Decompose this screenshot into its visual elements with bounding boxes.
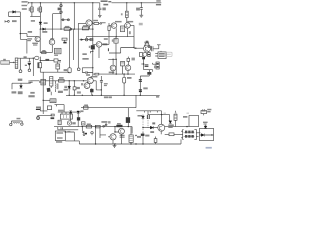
node dot [186, 126, 187, 127]
node dots rail right [126, 2, 142, 3]
node dot x92.8 y51.3 [92, 51, 93, 52]
resistor R17 [42, 52, 46, 54]
wire x33.3 vertical [32, 58, 34, 76]
node dots on rail [31, 2, 93, 3]
wire Q7 emitter [98, 47, 100, 58]
label C1 [102, 8, 105, 11]
cap C3b tee [157, 45, 161, 49]
terminal circle [19, 70, 22, 73]
component C18 [175, 111, 177, 114]
diode D4 [20, 83, 22, 85]
ground [139, 15, 143, 17]
label [154, 66, 156, 69]
wire Q1 base [78, 22, 86, 24]
label VR1 [54, 55, 58, 56]
label C2 [136, 8, 140, 11]
wire Q2 base [109, 25, 111, 27]
label Q10 [81, 83, 83, 85]
wire coil top [18, 58, 21, 69]
input terminal [5, 20, 7, 22]
node dot [116, 36, 117, 37]
lamp circle [37, 117, 40, 120]
wire y132 [65, 132, 74, 141]
wire speaker feed [165, 133, 183, 135]
wire x115 [115, 127, 119, 132]
node dot [211, 134, 212, 135]
resistor R10 [127, 58, 130, 61]
label rail right end [156, 0, 161, 5]
transistor Q2 [111, 23, 117, 29]
IF transformer T1 [121, 26, 125, 32]
dashed link 1 [142, 119, 144, 132]
terminal circle x78.3 [77, 68, 80, 71]
diode D12b [201, 134, 204, 137]
node dot [143, 63, 144, 64]
wire x136 drop [135, 95, 137, 107]
wire Q11 emitter [91, 87, 93, 89]
label C10 [64, 89, 68, 91]
terminal circle [70, 28, 72, 30]
node dot [114, 131, 115, 132]
switch S1 [103, 125, 105, 127]
terminal circle [28, 69, 31, 72]
node dot [40, 28, 41, 29]
wire y129.8 [58, 127, 78, 130]
label R16 [117, 123, 121, 124]
wire bus y95.3 [66, 94, 160, 96]
label Q2 [115, 21, 122, 23]
label input [12, 20, 17, 22]
wire y114.6 [148, 114, 170, 116]
coil bracket [11, 121, 22, 123]
node dot x92.8 [92, 28, 93, 29]
bar dark [51, 117, 55, 119]
resistor R9 [95, 73, 99, 75]
wire x95.6 [95, 127, 97, 144]
resistor R14 [86, 125, 92, 128]
node dot x61 [60, 28, 61, 29]
wire resistor bottoms [30, 16, 40, 18]
resistor R6 [126, 3, 128, 23]
label S1 [101, 121, 107, 123]
diode D7 [77, 111, 80, 113]
wire x140.3 vertical [139, 76, 141, 95]
capacitor C4 dark [142, 57, 145, 59]
resistor R5 [92, 22, 100, 24]
label D1 values [22, 1, 28, 10]
component dark on x92.8 [91, 45, 95, 49]
resistor R19 [155, 137, 157, 145]
faint marks [164, 113, 190, 114]
wire Q7 collector [102, 37, 109, 45]
label box [58, 110, 64, 113]
node dot [92, 67, 93, 68]
label BT1 [207, 109, 211, 113]
node dots bus y80.8 [69, 80, 85, 81]
wire y59.3 [108, 58, 116, 60]
resistor R7 [108, 23, 110, 37]
box ticks [145, 111, 158, 113]
wire AGC bus y29.1 [40, 28, 92, 30]
label node top [31, 20, 35, 22]
label Q3 emitter [129, 31, 131, 34]
diode D13 [28, 64, 31, 66]
node y60.5 [40, 60, 41, 61]
label M1 [72, 122, 75, 124]
wire T5 stubs [50, 86, 52, 95]
icon gray [165, 52, 172, 56]
wire y67.8 branch [82, 68, 93, 73]
capacitor C1 [98, 3, 101, 15]
wire x100 [100, 127, 106, 138]
node dot [43, 100, 44, 101]
wire osc feedback [53, 14, 61, 40]
junction circle [85, 38, 88, 41]
label Q5 [27, 38, 38, 45]
wire Q3 collector [130, 25, 134, 47]
label R17 [42, 50, 45, 51]
label right [132, 58, 135, 61]
wire Q1 emitter [89, 26, 91, 29]
capacitor C14 [139, 79, 142, 82]
capacitor C13 electrolytic [123, 74, 125, 77]
label D10 [168, 124, 174, 128]
component box [50, 99, 56, 103]
power rail right [112, 2, 162, 4]
label Q13 [120, 135, 125, 138]
label top [82, 58, 88, 60]
label X1 [112, 39, 113, 41]
ferrite antenna L1 [1, 61, 10, 65]
component box [54, 59, 58, 62]
resistor R1 [31, 3, 33, 17]
component box2 [47, 106, 51, 110]
node dots bus y95.3 [69, 95, 142, 96]
node dots bus126 [82, 126, 129, 127]
component box [51, 114, 54, 116]
volume box VR1 [55, 48, 62, 54]
wire Q10 right [93, 81, 101, 90]
speaker SP1 [181, 130, 184, 140]
component X1 [115, 37, 117, 60]
wire x78.2 [77, 113, 79, 126]
component C5 [148, 70, 150, 72]
wire x143 lower [142, 132, 144, 144]
label R6 [121, 13, 123, 15]
wire x143.6 [143, 57, 145, 70]
label D3 [42, 31, 47, 33]
IF can T2 [38, 63, 42, 68]
resistor R12 [73, 81, 75, 96]
label D2 [44, 22, 48, 24]
wire Q2 emitter [115, 28, 117, 37]
capacitor C12 [100, 76, 103, 95]
terminal circle R5 [100, 23, 102, 25]
diode D10 [169, 115, 171, 121]
transistor Q14 [158, 124, 165, 131]
wire bus y126.6 [78, 126, 132, 128]
transistor Q10 [87, 78, 93, 84]
diode D12 [81, 39, 83, 41]
node dot x20.3 y33.6 [20, 33, 21, 34]
label Q4 right [148, 46, 152, 48]
transistor Q4 [144, 45, 151, 52]
wire branch [91, 51, 93, 53]
label Q10 top [91, 76, 98, 77]
transistor Q1 [86, 20, 92, 26]
transistor Q8 [110, 65, 116, 71]
wire y100.3 [43, 99, 50, 101]
diode D2 [39, 17, 41, 30]
wire Q4 collector right [151, 48, 152, 50]
wire corner to antenna [20, 39, 27, 53]
label Q8 [109, 72, 115, 74]
wire y83.2 left [12, 83, 31, 89]
capacitor C6 [28, 58, 31, 63]
transistor Q3 [125, 23, 131, 29]
label C12 [104, 83, 108, 86]
wire T2 bottom [40, 68, 69, 72]
box left [58, 120, 61, 125]
wire y126.6 to x132 [131, 127, 133, 134]
wire Q4 top [144, 41, 149, 46]
component R15 [127, 108, 129, 118]
capacitor C11 [90, 89, 93, 92]
diode D9 [150, 126, 153, 129]
label R1 [29, 8, 31, 11]
head coil dark [77, 117, 80, 120]
resistor R16 dark [116, 125, 122, 127]
label right [104, 38, 108, 40]
capacitor C17 [147, 111, 149, 115]
resistor R20 [169, 133, 174, 136]
transistor Q7 [96, 42, 102, 48]
box right B [189, 115, 199, 126]
arrow mark [25, 65, 27, 66]
node dots bus74 [116, 73, 129, 74]
node dots [135, 127, 143, 136]
diode D5 [68, 81, 70, 86]
rail terminal mark [27, 1, 29, 4]
dashed link 2 [147, 118, 149, 127]
power rail left [28, 2, 100, 4]
motor M1 [67, 121, 71, 125]
label [145, 64, 149, 67]
label R13 [84, 105, 88, 107]
wire branch y33.6 [20, 34, 37, 38]
switch component [61, 19, 70, 21]
wire x74.3 vertical [73, 3, 75, 29]
label R14 [87, 124, 91, 126]
IF can T3 [56, 64, 60, 69]
wire to Q14 [154, 127, 158, 129]
coil L2 [15, 58, 18, 68]
battery BT1 [201, 111, 207, 114]
label chain [58, 8, 62, 11]
node dots rail [95, 143, 144, 144]
wire speaker right [196, 133, 200, 137]
wire y140.9 [65, 141, 79, 144]
node dot [70, 111, 71, 112]
label R2 [37, 8, 39, 11]
label left [28, 31, 32, 33]
diode D11 [205, 125, 207, 126]
resistor R13 [84, 106, 89, 109]
IF can T4 [121, 61, 125, 66]
wire Q6 emitter [51, 45, 53, 53]
resistor R4 [82, 27, 88, 30]
wire tuning top [20, 57, 33, 59]
wire Q4 base feed [134, 47, 144, 49]
label R11 [59, 77, 64, 79]
capacitor C16 battery-like [130, 127, 132, 135]
label Q1 [93, 20, 105, 24]
label cluster bottom-left [17, 118, 21, 120]
label above [18, 79, 23, 81]
label Q3 [127, 21, 133, 23]
diode D1 [13, 11, 16, 14]
label T6 [58, 91, 63, 93]
coil squiggle [13, 121, 20, 124]
diode D8 [142, 115, 144, 116]
transistor Q9 [125, 65, 131, 71]
label D7 [80, 110, 83, 112]
jack J2 [156, 62, 159, 69]
label faint [139, 23, 143, 26]
node dot [161, 114, 162, 115]
wire y104.6 [55, 105, 65, 113]
capacitor C10 [64, 86, 67, 87]
capacitor C9 [28, 81, 32, 83]
wire Q14 emitter [160, 132, 162, 135]
wire Q6 top [50, 38, 54, 39]
trimmer chain x61 [60, 3, 62, 29]
label R12 [77, 87, 80, 89]
diode D6 [69, 111, 72, 114]
wire Q8 [112, 59, 114, 74]
head box H1 [60, 114, 72, 119]
label left [108, 121, 110, 123]
label rail center [101, 0, 112, 5]
capacitor C2 [140, 3, 143, 15]
wire x69.5 vertical [69, 29, 71, 68]
component dark [141, 134, 145, 136]
labels bus y95.3 [104, 96, 159, 98]
label D4 [12, 91, 23, 94]
wire y126.7 [54, 126, 78, 128]
wire in box C [200, 134, 214, 136]
label Q4 [144, 42, 149, 44]
wire Q3 emitter [127, 28, 129, 37]
watermark text [206, 147, 212, 149]
arrow core [13, 62, 15, 64]
label C15 [143, 87, 147, 89]
node dots y59.3 [112, 59, 117, 60]
legend box [55, 131, 65, 141]
label in box [183, 116, 187, 118]
wire bus y80.8 [31, 80, 87, 82]
resistor R11 [58, 80, 64, 83]
big box top [136, 111, 161, 125]
wire vertical left x20.3 [19, 12, 21, 39]
wire node [40, 57, 45, 63]
component box x43.2 [41, 79, 46, 85]
wire Q7 base [93, 43, 96, 45]
transistor Q6 [49, 39, 55, 45]
label bottom [82, 53, 86, 55]
label [28, 92, 34, 97]
trimmer TC1 [62, 38, 67, 40]
cluster labels [137, 131, 154, 138]
wire bus y74.1 [93, 73, 135, 75]
label [67, 131, 70, 132]
IF transformer ladder T5 [50, 77, 53, 87]
jack J1 [158, 52, 166, 59]
box right small [82, 122, 86, 125]
component ticks [61, 127, 62, 129]
wire x43.2 vertical [42, 72, 44, 114]
wire speaker top [165, 126, 199, 128]
capacitor C8 [82, 71, 93, 74]
box right C [200, 128, 214, 140]
label L1 [3, 59, 6, 61]
wire y127.6 [143, 127, 150, 129]
node dot x134 [133, 47, 134, 48]
wire x78.3 vertical [77, 23, 79, 67]
wire Q5 collector feed [39, 29, 41, 52]
label R3 [65, 26, 70, 27]
wire AGC y39.5 [80, 39, 93, 41]
wire head feeds [62, 112, 66, 114]
capacitor C7 electrolytic [68, 68, 71, 73]
node dot [33, 58, 34, 59]
ground main [113, 144, 117, 148]
wire step [109, 48, 134, 54]
node dot [101, 89, 102, 90]
resistor R18 [45, 59, 49, 61]
wire tick [141, 63, 143, 65]
node dot x74.3 [74, 28, 75, 29]
transistor Q5 [35, 36, 40, 41]
wire y115.4 [38, 115, 52, 116]
wire y107.7 [81, 107, 136, 109]
wire [49, 60, 54, 62]
wire antenna out [10, 61, 14, 63]
wire x116.2 [115, 59, 117, 74]
label C7 [64, 69, 68, 71]
label Q14 left [152, 122, 155, 124]
node dot [65, 131, 66, 132]
wire x82.3 down [81, 127, 83, 132]
wire y69.7 [144, 70, 153, 72]
label C13 [127, 77, 132, 79]
transformer curls T6 [55, 83, 58, 89]
component slant [47, 88, 51, 92]
transistor Q11 [84, 83, 90, 89]
wire rail y144 [79, 143, 181, 145]
label cluster [36, 107, 41, 109]
wire Q13 [108, 134, 122, 144]
label [39, 81, 41, 83]
node dot [135, 48, 136, 49]
ground [98, 15, 102, 17]
switch cluster dark [82, 131, 87, 134]
diode D3 [43, 28, 46, 31]
terminal circles [10, 123, 12, 125]
wire bus y36.7 [86, 36, 134, 38]
label C8 [86, 74, 90, 76]
label right col [203, 122, 208, 125]
